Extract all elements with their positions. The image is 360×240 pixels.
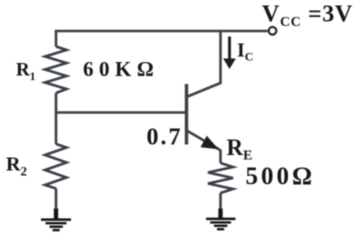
wire: left rail between R1 and R2 (through base node) (55, 93, 58, 144)
resistor R2 (zigzag) (45, 144, 67, 189)
transistor Q1 emitter arrowhead (201, 136, 219, 150)
svg-text:VCC =3V: VCC =3V (262, 2, 353, 31)
ground (right, under RE) (206, 209, 236, 230)
svg-text:60KΩ: 60KΩ (83, 57, 159, 81)
ground (left, under R2) (41, 209, 71, 231)
wire: base wire from left rail to transistor base bar (56, 111, 187, 114)
wire: emitter diagonal down to RE top (188, 131, 221, 163)
wire: collector diagonal and vertical up to top rail (188, 31, 221, 97)
resistor R1 (zigzag) (45, 47, 67, 94)
wire: RE bottom to right ground (219, 193, 222, 209)
transistor Q1 base bar (185, 84, 188, 145)
resistor RE (zigzag) (208, 163, 233, 193)
svg-text:0.7: 0.7 (147, 125, 183, 151)
VCC terminal circle (269, 27, 276, 34)
wire: top rail from R1 top to VCC terminal (56, 31, 268, 47)
wire: R2 bottom to left ground (55, 189, 58, 210)
svg-text:500Ω: 500Ω (246, 163, 316, 190)
current arrow I_C (223, 37, 236, 70)
